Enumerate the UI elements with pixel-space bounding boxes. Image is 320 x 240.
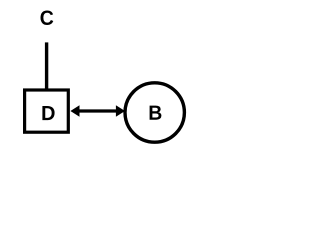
node D label <box>42 106 54 120</box>
double-headed arrow between D and B <box>70 105 125 117</box>
node C label <box>41 10 54 25</box>
node B label <box>150 106 162 120</box>
node B (circle) <box>125 83 184 142</box>
node D (square box) <box>25 90 69 132</box>
wire from C to box D <box>45 42 48 91</box>
